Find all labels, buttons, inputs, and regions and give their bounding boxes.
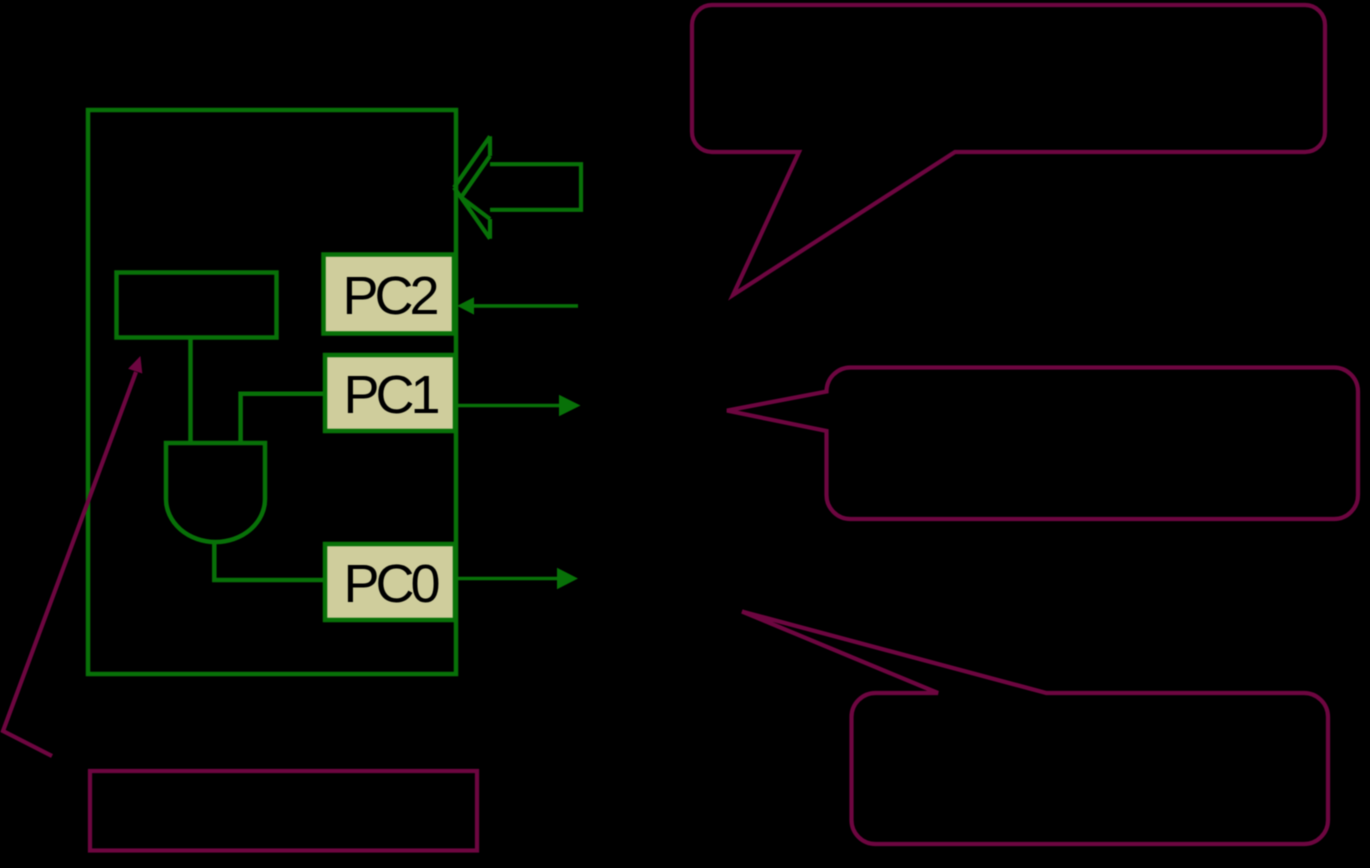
label box bottom-left [90, 771, 477, 851]
arrow out of PC1 [455, 404, 560, 408]
leader line from label box to control register [3, 372, 136, 756]
port block outer box [88, 110, 456, 674]
callout bubble top (write port note) [692, 5, 1325, 295]
svg-text:PC2: PC2 [342, 266, 437, 326]
register bit PC1 [325, 355, 455, 431]
arrow out of PC0 [455, 577, 558, 581]
svg-text:PC0: PC0 [343, 554, 438, 614]
svg-text:PC1: PC1 [343, 365, 438, 425]
AND gate U1 [166, 443, 265, 542]
control register (small rect) [117, 273, 277, 338]
big hollow input arrow [454, 136, 581, 238]
wire small-rect to AND input A [188, 337, 193, 443]
callout bubble middle (PC1 note) [727, 368, 1358, 520]
wire AND output to PC0 [214, 542, 325, 580]
register bit PC0 [325, 544, 455, 620]
wire PC1 to AND input B [241, 394, 325, 443]
arrow into PC2 [473, 304, 578, 308]
register bit PC2 [324, 255, 455, 334]
callout bubble bottom (PC0 note) [742, 612, 1328, 845]
leader arrowhead [128, 356, 142, 374]
